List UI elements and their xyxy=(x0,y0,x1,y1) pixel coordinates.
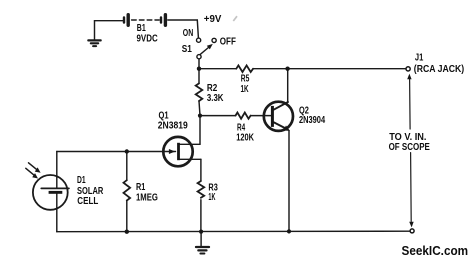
svg-text:1MEG: 1MEG xyxy=(136,192,158,203)
svg-text:R1: R1 xyxy=(136,182,146,193)
svg-text:2N3819: 2N3819 xyxy=(158,121,188,132)
svg-text:OF SCOPE: OF SCOPE xyxy=(389,142,431,153)
svg-text:2N3904: 2N3904 xyxy=(299,115,326,126)
svg-text:CELL: CELL xyxy=(77,196,98,207)
svg-text:OFF: OFF xyxy=(220,36,236,47)
svg-text:3.3K: 3.3K xyxy=(207,93,224,104)
svg-text:D1: D1 xyxy=(77,175,86,186)
svg-text:S1: S1 xyxy=(182,44,193,55)
svg-text:SeekIC.com: SeekIC.com xyxy=(402,243,469,258)
svg-text:B1: B1 xyxy=(137,23,146,34)
svg-text:9VDC: 9VDC xyxy=(137,33,158,44)
svg-text:J1: J1 xyxy=(415,52,424,63)
svg-text:+9V: +9V xyxy=(204,14,222,25)
svg-text:(RCA JACK): (RCA JACK) xyxy=(414,64,464,75)
svg-text:1K: 1K xyxy=(241,84,249,95)
svg-text:ON: ON xyxy=(183,28,193,39)
svg-text:SOLAR: SOLAR xyxy=(77,186,103,197)
svg-text:1K: 1K xyxy=(208,192,215,203)
svg-text:120K: 120K xyxy=(236,132,254,143)
svg-text:R5: R5 xyxy=(241,73,250,84)
